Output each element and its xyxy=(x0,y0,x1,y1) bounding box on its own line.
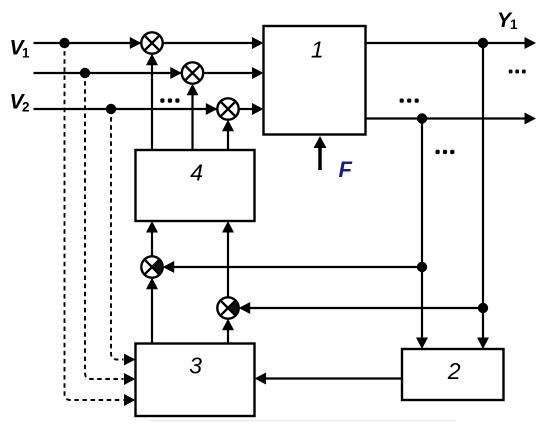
wire V1 input to multiplier M1 xyxy=(34,37,143,49)
node on V2 row (tap for dashed feedback) xyxy=(106,104,116,114)
node feeding M4 xyxy=(417,262,427,272)
wire block 4 up to M3 xyxy=(222,120,234,150)
ellipsis right edge outputs xyxy=(509,70,526,74)
block 1 xyxy=(264,26,366,135)
wire block 1 output Y1 xyxy=(366,37,537,49)
wire feedback vertical from second-output node down to block 2 xyxy=(416,119,428,350)
block 2 xyxy=(402,349,504,400)
wire block 4 up to M2 xyxy=(187,84,199,150)
svg-text:1: 1 xyxy=(510,17,518,32)
wire block 3 up to M4 xyxy=(146,278,158,344)
input label V2 xyxy=(10,90,30,114)
wire M4 up to block 4 xyxy=(146,221,158,256)
wire row-2 input to multiplier M2 xyxy=(34,67,183,79)
wire M3 output to block 1 xyxy=(239,103,264,115)
node on second output xyxy=(417,113,427,123)
node feeding M5 xyxy=(478,303,488,313)
multiplier M3 xyxy=(217,98,238,119)
svg-text:2: 2 xyxy=(447,358,461,384)
block 4 xyxy=(136,150,255,221)
svg-text:1: 1 xyxy=(311,36,324,62)
F input arrow into block 1 xyxy=(314,136,327,170)
wire M5 up to block 4 xyxy=(222,221,234,297)
svg-text:2: 2 xyxy=(22,99,30,114)
wire block 1 second output xyxy=(366,113,537,125)
ellipsis between input rows xyxy=(160,98,179,102)
dashed feedback wire from V2 node to block 3 top input xyxy=(111,109,136,366)
wire V2 input to multiplier M3 xyxy=(34,103,219,115)
wire block 2 to block 3 xyxy=(255,373,403,385)
svg-text:F: F xyxy=(339,157,353,182)
wire block 3 up to M5 xyxy=(222,319,234,344)
dashed feedback wire from row-2 node to block 3 middle input xyxy=(85,73,136,385)
output label Y1 xyxy=(497,9,518,32)
multiplier M2 xyxy=(182,62,203,83)
input label V1 xyxy=(10,36,31,60)
wire block 4 up to M1 xyxy=(146,54,158,150)
ellipsis between block 1 outputs xyxy=(400,99,419,103)
svg-text:1: 1 xyxy=(22,46,30,61)
node on Y1 output xyxy=(478,38,488,48)
svg-text:4: 4 xyxy=(190,159,203,185)
ellipsis below second output xyxy=(436,150,455,154)
block 3 xyxy=(136,344,255,417)
wire feedback vertical from Y1 node down to block 2 xyxy=(477,43,489,349)
multiplier M4 (right quadrant shaded) xyxy=(141,256,162,277)
svg-text:3: 3 xyxy=(189,353,202,379)
dashed feedback wire from V1 node to block 3 bottom input xyxy=(65,43,136,406)
multiplier M5 (right quadrant shaded) xyxy=(217,297,238,318)
wire feed to M5 xyxy=(239,302,483,314)
wire feed to M4 xyxy=(163,261,422,273)
wire M2 output to block 1 xyxy=(203,67,263,79)
node on row-2 (tap for dashed feedback) xyxy=(80,68,90,78)
multiplier M1 xyxy=(141,32,162,53)
wire M1 output to block 1 xyxy=(163,37,264,49)
node on V1 row (tap for dashed feedback) xyxy=(59,38,69,48)
